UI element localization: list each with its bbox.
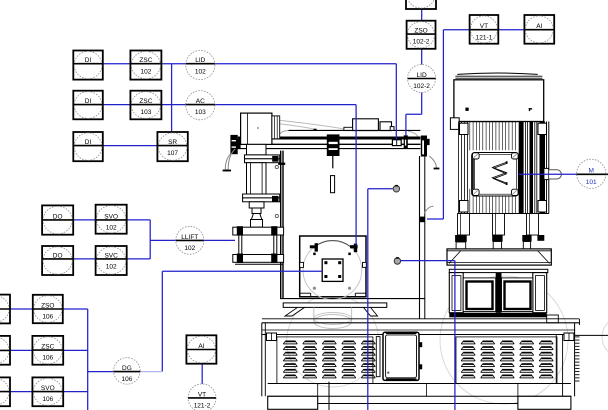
svg-text:SVO: SVO	[41, 385, 55, 392]
svg-text:M: M	[588, 168, 593, 175]
svg-text:AI: AI	[198, 343, 204, 350]
svg-text:106: 106	[42, 396, 53, 403]
svg-text:102: 102	[106, 264, 117, 271]
svg-text:102-2: 102-2	[413, 39, 430, 46]
svg-text:ZSO: ZSO	[41, 302, 54, 309]
svg-text:DG: DG	[122, 365, 132, 372]
svg-text:102: 102	[184, 245, 195, 252]
svg-text:LID: LID	[417, 72, 427, 79]
svg-text:ZSO: ZSO	[414, 28, 427, 35]
svg-text:ZSC: ZSC	[139, 98, 152, 105]
svg-text:121-2: 121-2	[194, 403, 211, 410]
svg-text:121-1: 121-1	[476, 34, 493, 41]
svg-text:DO: DO	[53, 213, 63, 220]
svg-text:106: 106	[42, 314, 53, 321]
svg-text:LLIFT: LLIFT	[181, 234, 198, 241]
svg-text:SVC: SVC	[104, 252, 118, 259]
svg-text:103: 103	[140, 109, 151, 116]
svg-text:106: 106	[42, 355, 53, 362]
svg-text:102: 102	[195, 68, 206, 75]
svg-text:VT: VT	[198, 391, 206, 398]
svg-text:101: 101	[586, 179, 597, 186]
svg-text:102-2: 102-2	[413, 83, 430, 90]
svg-text:102: 102	[140, 68, 151, 75]
svg-text:107: 107	[167, 150, 178, 157]
svg-text:DO: DO	[53, 252, 63, 259]
svg-text:LID: LID	[195, 57, 205, 64]
svg-text:ZSC: ZSC	[41, 344, 54, 351]
svg-text:SVO: SVO	[104, 213, 118, 220]
svg-text:AC: AC	[196, 98, 205, 105]
svg-text:AI: AI	[536, 23, 542, 30]
svg-text:ZSC: ZSC	[139, 57, 152, 64]
svg-text:VT: VT	[480, 23, 488, 30]
svg-text:106: 106	[121, 376, 132, 383]
svg-text:DI: DI	[85, 139, 92, 146]
svg-text:102: 102	[106, 225, 117, 232]
svg-text:DI: DI	[85, 57, 92, 64]
svg-text:103: 103	[195, 109, 206, 116]
svg-text:SR: SR	[168, 139, 177, 146]
svg-text:DI: DI	[85, 98, 92, 105]
